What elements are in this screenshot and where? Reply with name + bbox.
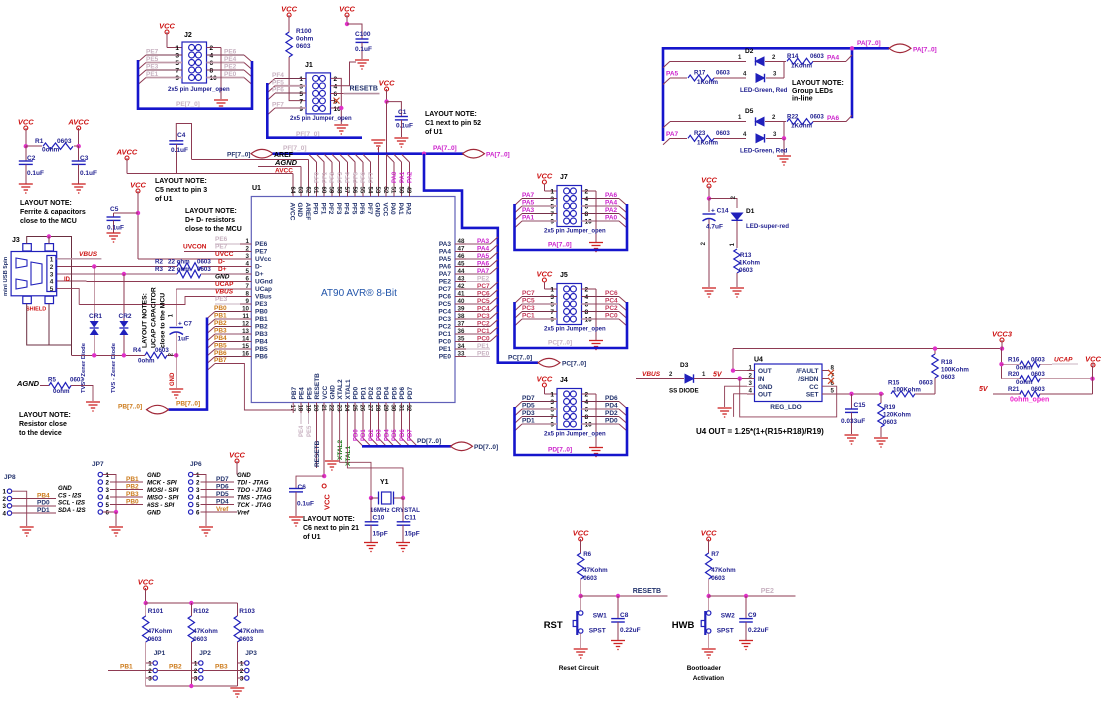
svg-text:PB2: PB2 — [126, 483, 139, 490]
svg-text:PE0: PE0 — [477, 350, 490, 357]
svg-text:PF5: PF5 — [272, 79, 284, 86]
svg-text:TMS - JTAG: TMS - JTAG — [237, 495, 272, 502]
ground C2 — [19, 184, 33, 193]
svg-text:21: 21 — [320, 405, 327, 412]
svg-text:PE1: PE1 — [146, 71, 159, 78]
svg-text:26: 26 — [359, 405, 366, 412]
svg-text:PA1: PA1 — [522, 215, 535, 222]
svg-text:15pF: 15pF — [373, 531, 388, 538]
net label UVCON PE7 — [184, 251, 240, 253]
svg-text:3: 3 — [106, 487, 110, 494]
svg-text:2: 2 — [106, 479, 110, 486]
svg-text:2: 2 — [334, 76, 338, 83]
svg-text:AVCC: AVCC — [275, 168, 293, 175]
svg-text:PA3: PA3 — [522, 207, 535, 214]
svg-text:4.7uF: 4.7uF — [706, 224, 723, 231]
svg-text:PC0: PC0 — [438, 339, 451, 346]
svg-text:TDO - JTAG: TDO - JTAG — [237, 487, 272, 494]
svg-text:VCC: VCC — [1085, 355, 1101, 364]
wire U4 pin1 to VCC3 rail — [733, 349, 747, 371]
svg-text:PD[7..0]: PD[7..0] — [474, 444, 498, 451]
node C100 — [345, 22, 349, 26]
offpage PB[7..0] — [147, 405, 169, 414]
svg-text:D5: D5 — [745, 108, 754, 115]
svg-text:D+ D- resistors: D+ D- resistors — [185, 217, 235, 224]
svg-text:VCC: VCC — [536, 270, 552, 279]
svg-text:PD7: PD7 — [522, 395, 535, 402]
wire R100 to J1 pin7 — [289, 57, 306, 101]
ground JP3 — [230, 688, 244, 697]
svg-text:C15: C15 — [854, 402, 866, 409]
svg-text:3: 3 — [175, 53, 179, 60]
ground SW1 — [574, 649, 588, 658]
svg-text:PA2: PA2 — [405, 203, 412, 216]
svg-text:Vref: Vref — [237, 510, 250, 517]
svg-text:1: 1 — [194, 660, 198, 667]
svg-text:PC1: PC1 — [438, 331, 451, 338]
capacitor C3 0.1uF — [78, 146, 80, 161]
svg-text:PA3: PA3 — [477, 238, 490, 245]
svg-text:1: 1 — [749, 364, 753, 371]
svg-text:1: 1 — [550, 189, 554, 196]
svg-text:VCC: VCC — [130, 181, 146, 190]
svg-text:PE6: PE6 — [224, 49, 237, 56]
svg-text:PA2: PA2 — [408, 171, 414, 183]
resistor R6 47Kohm — [578, 553, 584, 579]
wire AGND row — [258, 165, 301, 167]
svg-text:6: 6 — [246, 276, 250, 283]
svg-text:53: 53 — [374, 187, 381, 194]
svg-text:39: 39 — [458, 306, 465, 313]
svg-text:9: 9 — [299, 106, 303, 113]
wire J1 pin4 up — [331, 62, 357, 86]
svg-text:PE0: PE0 — [224, 71, 237, 78]
svg-text:SET: SET — [806, 391, 819, 398]
wires JP7 — [103, 475, 117, 513]
svg-text:30: 30 — [390, 405, 397, 412]
offpage PC[7..0] — [538, 358, 560, 367]
svg-text:0.033uF: 0.033uF — [841, 418, 865, 425]
svg-text:PF6: PF6 — [272, 87, 284, 94]
svg-text:PE2: PE2 — [224, 64, 237, 71]
svg-text:PC7: PC7 — [522, 290, 535, 297]
svg-text:PE2: PE2 — [761, 588, 774, 595]
svg-text:PF[7..0]: PF[7..0] — [227, 152, 250, 159]
svg-text:PF2: PF2 — [330, 171, 336, 183]
svg-text:PA7: PA7 — [666, 131, 679, 138]
svg-text:2x5 pin Jumper_open: 2x5 pin Jumper_open — [544, 327, 606, 333]
node R20 VCC — [1090, 377, 1094, 381]
svg-text:PA6: PA6 — [827, 115, 840, 122]
svg-text:XTAL1: XTAL1 — [345, 379, 352, 399]
svg-text:3: 3 — [246, 253, 250, 260]
svg-text:59: 59 — [328, 187, 335, 194]
ground C7 — [169, 389, 183, 398]
ground C14 — [702, 288, 716, 297]
svg-text:36: 36 — [458, 328, 465, 335]
ground C6 — [289, 517, 303, 526]
svg-text:PF3: PF3 — [338, 171, 344, 183]
svg-text:R103: R103 — [239, 608, 255, 615]
svg-text:2: 2 — [240, 668, 244, 675]
svg-text:PC3: PC3 — [438, 316, 451, 323]
svg-text:PE4: PE4 — [224, 56, 237, 63]
ic U1 top pins — [292, 186, 294, 197]
svg-text:PA0: PA0 — [389, 203, 396, 216]
node U4 in — [738, 376, 742, 380]
resistor R15 100Kohm — [891, 391, 915, 397]
svg-text:U4 OUT = 1.25*(1+(R15+R18)/R19: U4 OUT = 1.25*(1+(R15+R18)/R19) — [696, 427, 824, 436]
wire U4 pin4 — [734, 394, 747, 417]
svg-text:GND: GND — [215, 274, 230, 281]
svg-text:R18: R18 — [941, 359, 953, 366]
svg-text:14: 14 — [242, 336, 249, 343]
svg-text:R17: R17 — [694, 70, 706, 77]
svg-text:0603: 0603 — [716, 70, 730, 77]
svg-text:PA4: PA4 — [477, 245, 490, 252]
svg-text:C5: C5 — [110, 206, 119, 213]
svg-text:LED-super-red: LED-super-red — [746, 223, 789, 230]
svg-text:7: 7 — [550, 309, 554, 316]
svg-text:PD0: PD0 — [353, 386, 360, 399]
svg-text:2: 2 — [585, 287, 589, 294]
svg-text:20: 20 — [312, 405, 319, 412]
svg-text:47Kohm: 47Kohm — [193, 628, 218, 635]
svg-text:PE7: PE7 — [146, 49, 159, 56]
ground C100 — [355, 60, 369, 69]
svg-text:PE4: PE4 — [299, 425, 305, 437]
svg-text:1: 1 — [50, 257, 54, 264]
wire J5 pin2 ground — [582, 288, 597, 290]
wire R5 to ground — [71, 386, 93, 402]
svg-text:AVCC: AVCC — [116, 148, 138, 157]
svg-text:PA3: PA3 — [439, 241, 452, 248]
wires J5 left rows — [522, 296, 557, 298]
svg-text:3: 3 — [148, 675, 152, 682]
svg-text:PD4: PD4 — [384, 429, 390, 441]
svg-text:C1 next to pin 52: C1 next to pin 52 — [425, 120, 481, 127]
svg-text:2: 2 — [210, 45, 214, 52]
svg-text:PA5: PA5 — [522, 200, 535, 207]
svg-text:LAYOUT NOTE:: LAYOUT NOTE: — [303, 516, 355, 523]
svg-text:0603: 0603 — [193, 636, 207, 643]
svg-text:LAYOUT NOTES:: LAYOUT NOTES: — [142, 293, 149, 348]
svg-text:2x5 pin Jumper_open: 2x5 pin Jumper_open — [168, 87, 230, 93]
resistor R100 0ohm 0603 — [286, 32, 292, 57]
svg-text:0.1uF: 0.1uF — [80, 170, 97, 177]
svg-text:PE2: PE2 — [439, 279, 452, 286]
svg-text:5: 5 — [550, 407, 554, 414]
svg-text:PC3: PC3 — [477, 313, 490, 320]
svg-text:PE1: PE1 — [477, 343, 490, 350]
capacitor C9 0.22uF — [745, 596, 747, 619]
svg-text:5: 5 — [106, 502, 110, 509]
svg-text:PC5: PC5 — [477, 298, 490, 305]
svg-text:49: 49 — [405, 187, 412, 194]
svg-text:in-line: in-line — [792, 96, 813, 103]
svg-text:PC3: PC3 — [522, 305, 535, 312]
wire UGnd row6 — [57, 280, 87, 282]
svg-text:JP7: JP7 — [92, 461, 104, 468]
svg-text:AGND: AGND — [274, 158, 298, 167]
bus PA to right side — [424, 154, 538, 363]
capacitor C6 0.1uF — [296, 476, 324, 488]
svg-text:GND: GND — [147, 510, 161, 517]
svg-text:5: 5 — [175, 60, 179, 67]
wires PD0-PD7 bus entries — [354, 413, 356, 438]
resistor R103 47Kohm — [236, 603, 238, 616]
svg-text:4: 4 — [585, 294, 589, 301]
svg-text:RESETB: RESETB — [314, 440, 321, 467]
node CR2 top — [122, 272, 126, 276]
ground C3 — [72, 184, 86, 193]
svg-text:2x5 pin Jumper_open: 2x5 pin Jumper_open — [544, 229, 606, 235]
svg-text:100Kohm: 100Kohm — [941, 367, 969, 374]
svg-text:PD2: PD2 — [369, 429, 375, 441]
ground JP6 — [199, 527, 213, 536]
svg-text:R21: R21 — [1008, 386, 1020, 393]
svg-text:UCap: UCap — [255, 286, 272, 293]
node R7 — [707, 594, 711, 598]
svg-text:D3: D3 — [680, 362, 689, 369]
resistor R17 1Kohm — [688, 75, 714, 81]
svg-text:PA[7..0]: PA[7..0] — [548, 242, 572, 249]
svg-text:LED-Green, Red: LED-Green, Red — [740, 87, 788, 94]
wire RESETB row — [581, 595, 668, 597]
svg-text:PA4: PA4 — [827, 55, 840, 62]
ground SW2 — [702, 649, 716, 658]
wire D2 common — [783, 61, 785, 78]
svg-text:VBus: VBus — [255, 294, 272, 301]
svg-text:7: 7 — [175, 68, 179, 75]
svg-text:R7: R7 — [711, 551, 719, 558]
ground C8 — [611, 641, 625, 650]
svg-text:0.22uF: 0.22uF — [620, 627, 641, 634]
svg-text:SW2: SW2 — [721, 613, 735, 620]
svg-text:1: 1 — [246, 238, 250, 245]
svg-text:PE5: PE5 — [306, 387, 313, 400]
svg-text:PF0: PF0 — [312, 203, 319, 215]
svg-text:1: 1 — [240, 660, 244, 667]
svg-text:PB5: PB5 — [214, 343, 227, 350]
svg-text:PD6: PD6 — [400, 429, 406, 441]
svg-text:U4: U4 — [754, 357, 763, 364]
svg-text:0ohm: 0ohm — [296, 36, 314, 43]
no-connect J1 pin8 — [331, 100, 335, 102]
node R6 — [579, 594, 583, 598]
svg-text:1: 1 — [196, 472, 200, 479]
svg-text:4: 4 — [3, 510, 7, 517]
svg-text:SW1: SW1 — [593, 613, 607, 620]
svg-text:PD6: PD6 — [216, 483, 229, 490]
svg-text:MOSI - SPI: MOSI - SPI — [147, 487, 179, 494]
svg-text:to the device: to the device — [19, 430, 62, 437]
svg-text:VCC: VCC — [281, 5, 297, 14]
svg-text:3: 3 — [749, 380, 753, 387]
svg-text:42: 42 — [458, 283, 465, 290]
wire UVcc row3 — [138, 258, 240, 260]
svg-text:22: 22 — [328, 405, 335, 412]
wire to D1 — [709, 199, 737, 209]
svg-text:CR1: CR1 — [89, 313, 102, 320]
svg-text:29: 29 — [382, 405, 389, 412]
svg-text:close to the MCU: close to the MCU — [20, 218, 77, 225]
wire bottom rail R4 — [72, 354, 146, 356]
svg-text:D2: D2 — [745, 48, 754, 55]
wire RESETB from J1 pin6 — [331, 92, 344, 94]
svg-text:PC[7..0]: PC[7..0] — [508, 355, 532, 362]
svg-text:43: 43 — [458, 276, 465, 283]
svg-text:PE5: PE5 — [146, 56, 159, 63]
svg-text:R3: R3 — [155, 266, 163, 273]
bus PE[7..0] J2 frame — [138, 60, 252, 109]
wire VBUS to D3 — [636, 378, 684, 380]
svg-text:C6: C6 — [298, 484, 307, 491]
svg-text:60: 60 — [320, 187, 327, 194]
svg-text:0603: 0603 — [716, 130, 730, 137]
svg-text:0603: 0603 — [1031, 356, 1045, 363]
resistor R14 1Kohm — [787, 58, 813, 64]
svg-text:8: 8 — [585, 414, 589, 421]
svg-text:RESETB: RESETB — [314, 373, 321, 400]
resistor R22 1Kohm — [787, 119, 813, 125]
wire U4 pin2 loop — [740, 379, 837, 417]
ground C1 — [394, 138, 408, 147]
bus PF[7..0] J1 frame — [267, 83, 362, 138]
svg-text:38: 38 — [458, 313, 465, 320]
svg-text:2: 2 — [246, 246, 250, 253]
svg-text:PC1: PC1 — [522, 313, 535, 320]
ic U1 bottom pins — [292, 403, 294, 414]
svg-text:1: 1 — [148, 660, 152, 667]
svg-text:1Kohm: 1Kohm — [791, 123, 812, 130]
wires PA0-PA2 bus entries — [393, 162, 395, 186]
svg-text:PE[7_0]: PE[7_0] — [176, 101, 200, 108]
wire D5 common — [783, 122, 785, 139]
svg-text:GND: GND — [58, 485, 72, 492]
node C7 bottom — [174, 353, 178, 357]
svg-text:PD4: PD4 — [605, 403, 618, 410]
svg-text:0603: 0603 — [1031, 371, 1045, 378]
svg-text:PD6: PD6 — [605, 395, 618, 402]
resistor R20 0ohm — [1002, 378, 1022, 380]
svg-text:PC4: PC4 — [477, 305, 490, 312]
svg-text:0.1uF: 0.1uF — [171, 147, 188, 154]
svg-text:PD4: PD4 — [384, 386, 391, 399]
wire J1 pin2/pin10 to ground — [331, 78, 342, 124]
svg-text:0603: 0603 — [197, 266, 211, 273]
svg-text:CS - I2S: CS - I2S — [58, 492, 82, 499]
svg-text:GND: GND — [758, 384, 773, 391]
svg-text:27: 27 — [366, 405, 373, 412]
svg-text:VCC: VCC — [323, 494, 332, 510]
svg-text:64: 64 — [289, 187, 296, 194]
svg-text:C100: C100 — [355, 31, 371, 38]
svg-text:PA1: PA1 — [400, 171, 406, 183]
svg-text:PB3: PB3 — [215, 663, 228, 670]
svg-text:56: 56 — [351, 187, 358, 194]
node C15 — [849, 392, 853, 396]
svg-text:PF3: PF3 — [335, 203, 342, 215]
svg-text:UCAP: UCAP — [1054, 356, 1073, 363]
svg-text:51: 51 — [390, 187, 397, 194]
svg-text:U1: U1 — [252, 185, 261, 192]
wire PE2 row — [709, 595, 796, 597]
wires J2 left rows — [146, 54, 182, 56]
svg-text:PB4: PB4 — [214, 335, 227, 342]
switch SW2 SPST — [708, 596, 710, 611]
wire D+ row5 / resistor R3 22ohm — [57, 273, 177, 275]
svg-text:PE7: PE7 — [255, 249, 268, 256]
svg-text:5V: 5V — [713, 372, 723, 379]
svg-text:PD5: PD5 — [391, 386, 398, 399]
svg-text:0.1uF: 0.1uF — [297, 501, 314, 508]
ic U4 pins — [747, 370, 755, 372]
svg-text:0.22uF: 0.22uF — [748, 627, 769, 634]
wire VCC3 rail — [733, 348, 1002, 350]
capacitor C7 1uF — [175, 297, 177, 326]
svg-text:D+: D+ — [255, 271, 264, 278]
svg-text:6: 6 — [585, 407, 589, 414]
ground JP8 — [20, 527, 34, 536]
svg-text:22 ohm: 22 ohm — [168, 266, 190, 273]
bus PD[7..0] — [362, 445, 451, 448]
svg-text:11: 11 — [242, 313, 249, 320]
wires PB0-PB6 bus entries — [215, 311, 240, 313]
svg-text:close to the MCU: close to the MCU — [160, 293, 167, 348]
resistor R1 0ohm 0603 — [26, 145, 42, 147]
svg-text:PB2: PB2 — [169, 663, 182, 670]
ground C15 — [845, 435, 859, 444]
svg-text:10: 10 — [242, 306, 249, 313]
bus J4 frame — [515, 407, 628, 455]
svg-text:PD1: PD1 — [37, 507, 50, 514]
svg-text:PD1: PD1 — [361, 429, 367, 441]
svg-text:of U1: of U1 — [303, 534, 321, 541]
svg-text:of U1: of U1 — [155, 196, 173, 203]
svg-text:VCC: VCC — [18, 118, 34, 127]
svg-text:PA0: PA0 — [605, 215, 618, 222]
svg-text:9: 9 — [246, 298, 250, 305]
svg-text:PE6: PE6 — [215, 236, 228, 243]
svg-text:PD2: PD2 — [368, 386, 375, 399]
svg-text:8: 8 — [585, 309, 589, 316]
svg-text:PA6: PA6 — [477, 260, 490, 267]
svg-text:GND: GND — [330, 385, 337, 400]
svg-text:LAYOUT NOTE:: LAYOUT NOTE: — [792, 80, 844, 87]
wire J3 pin1 VBUS — [57, 258, 102, 260]
ground JP7 — [109, 527, 123, 536]
svg-text:Bootloader: Bootloader — [687, 665, 722, 672]
svg-text:UVcc: UVcc — [255, 256, 272, 263]
svg-text:3: 3 — [550, 294, 554, 301]
svg-text:PB2: PB2 — [255, 324, 268, 331]
svg-text:R16: R16 — [1008, 356, 1020, 363]
svg-text:4: 4 — [334, 83, 338, 90]
svg-text:HWB: HWB — [672, 620, 695, 631]
svg-text:3: 3 — [3, 503, 7, 510]
svg-text:Activation: Activation — [693, 675, 724, 682]
svg-text:R2: R2 — [155, 258, 163, 265]
svg-text:37: 37 — [458, 321, 465, 328]
svg-text:AVCC: AVCC — [288, 203, 295, 221]
ground J7 — [589, 243, 603, 252]
svg-text:1: 1 — [3, 489, 7, 496]
bus J5 frame — [515, 302, 628, 348]
node VCC C6 — [322, 474, 326, 478]
svg-text:62: 62 — [304, 187, 311, 194]
svg-text:TCK - JTAG: TCK - JTAG — [237, 502, 271, 509]
